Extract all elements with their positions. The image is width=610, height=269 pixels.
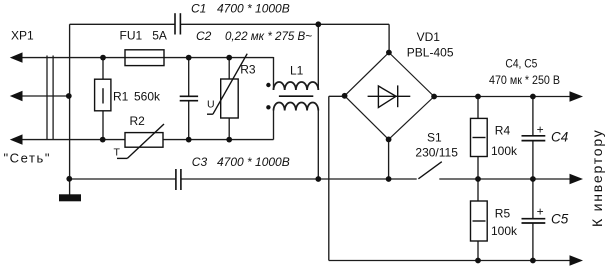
diode inside bridge: [368, 85, 411, 107]
svg-text:U: U: [207, 99, 215, 111]
svg-text:S1: S1: [427, 131, 442, 145]
svg-text:560k: 560k: [134, 89, 161, 103]
junction C5 bottom on minus rail: [530, 258, 536, 264]
capacitor C1: [175, 13, 180, 34]
junction bridge bottom corner: [386, 137, 392, 143]
varistor R3: [207, 54, 247, 118]
wire PE middle: [22, 95, 70, 97]
pin arrow middle: [10, 91, 23, 101]
wire minus rail: [329, 260, 570, 262]
junction C1 to AC1 node: [315, 21, 321, 27]
wire N rise to L1: [273, 111, 275, 140]
svg-text:230/115: 230/115: [415, 146, 458, 160]
junction R4 top on plus rail: [475, 94, 481, 100]
junction R1 top on L line: [100, 55, 106, 61]
junction bridge AC2 on middle rail: [386, 176, 392, 182]
wire R4 leads: [477, 97, 479, 119]
choke L1 core: [279, 95, 313, 97]
svg-text:L1: L1: [290, 64, 304, 78]
fuse FU1: [125, 50, 164, 66]
junction C2 bottom on N line: [186, 137, 192, 143]
svg-text:PBL-405: PBL-405: [407, 45, 454, 59]
svg-text:T: T: [114, 147, 121, 159]
svg-text:R3: R3: [240, 63, 256, 77]
wire minus stub: [329, 95, 345, 97]
svg-text:R5: R5: [495, 207, 511, 221]
svg-text:+: +: [537, 205, 544, 219]
wire PE vertical: [69, 24, 71, 194]
wire C4 leads: [532, 97, 534, 136]
svg-text:4700 * 1000В: 4700 * 1000В: [217, 1, 290, 15]
svg-text:R1: R1: [113, 89, 129, 103]
capacitor C4: [522, 136, 546, 141]
capacitor C2: [180, 96, 198, 100]
wire plus rail: [434, 96, 570, 98]
junction C2 top on L line: [186, 55, 192, 61]
junction bridge top corner: [386, 50, 392, 56]
phase dot top: [266, 83, 270, 87]
svg-text:+: +: [537, 123, 544, 137]
svg-text:К инвертору: К инвертору: [589, 128, 605, 227]
svg-text:C2: C2: [196, 29, 212, 43]
wire L1 bottom out: [317, 111, 319, 180]
wire C2 leads: [188, 58, 190, 96]
wire middle rail seg2: [181, 178, 417, 180]
wire C1 top left: [70, 23, 175, 25]
junction PE pin node: [66, 93, 72, 99]
capacitor C3: [176, 169, 181, 190]
junction R4 R5 midpoint: [475, 176, 481, 182]
output arrow minus: [570, 255, 584, 266]
svg-text:C3: C3: [192, 155, 208, 169]
switch S1: [418, 162, 441, 179]
svg-text:470 мк * 250 В: 470 мк * 250 В: [489, 73, 560, 87]
junction C3 to AC2 node: [315, 176, 321, 182]
svg-text:C1: C1: [191, 1, 206, 15]
bridge VD1: [345, 53, 435, 140]
thermistor R2: [117, 124, 164, 158]
junction bridge right corner: [431, 94, 437, 100]
junction bridge left corner: [342, 93, 348, 99]
wire bridge top input: [388, 24, 390, 52]
junction R1 bottom on N line: [100, 137, 106, 143]
svg-text:R2: R2: [130, 114, 146, 128]
output arrow middle: [570, 174, 584, 185]
svg-text:FU1: FU1: [120, 29, 143, 43]
wire C1 top right: [180, 23, 389, 25]
resistor R4: [471, 118, 488, 156]
wire middle rail seg3: [439, 178, 570, 180]
svg-text:C4: C4: [551, 130, 568, 145]
phase dot bottom: [266, 105, 270, 109]
wire R1 leads: [102, 58, 104, 80]
wire L top line: [22, 57, 274, 59]
junction R3 top on L line: [226, 55, 232, 61]
resistor R1: [95, 79, 111, 111]
wire R5 leads: [477, 179, 479, 201]
junction C4 top on plus rail: [530, 94, 536, 100]
svg-text:C4, C5: C4, C5: [505, 57, 537, 71]
svg-text:VD1: VD1: [417, 30, 441, 44]
svg-text:100k: 100k: [491, 224, 518, 238]
pin arrow top: [10, 52, 23, 62]
pin arrow bottom: [10, 134, 23, 144]
svg-text:"Сеть": "Сеть": [4, 151, 50, 166]
ground: [59, 194, 81, 201]
svg-text:0,22 мк * 275 В~: 0,22 мк * 275 В~: [225, 29, 312, 43]
wire middle rail seg1: [70, 178, 176, 180]
output arrow plus: [570, 91, 584, 102]
wire minus vertical: [328, 96, 330, 260]
wire C5 leads: [532, 179, 534, 218]
wire L1 top out: [317, 24, 319, 90]
wire bridge bottom input: [388, 139, 390, 179]
svg-text:C5: C5: [551, 212, 569, 227]
junction R3 bottom on N line: [226, 137, 232, 143]
wire N bottom line right: [163, 139, 274, 141]
capacitor C5: [522, 219, 546, 223]
svg-text:100k: 100k: [491, 144, 518, 158]
junction C4 C5 midpoint: [530, 176, 536, 182]
junction R5 bottom on minus rail: [475, 258, 481, 264]
svg-text:R4: R4: [495, 124, 511, 138]
svg-text:5A: 5A: [152, 29, 167, 43]
wire N bottom line left: [22, 139, 125, 141]
svg-text:ХР1: ХР1: [11, 29, 34, 43]
resistor R5: [471, 201, 488, 241]
junction ground node: [66, 176, 72, 182]
connector XP1: [47, 56, 53, 140]
svg-text:4700 * 1000В: 4700 * 1000В: [217, 155, 290, 169]
wire R3 leads: [228, 58, 230, 79]
wire L drop to L1: [273, 57, 275, 90]
choke L1: [274, 82, 319, 111]
